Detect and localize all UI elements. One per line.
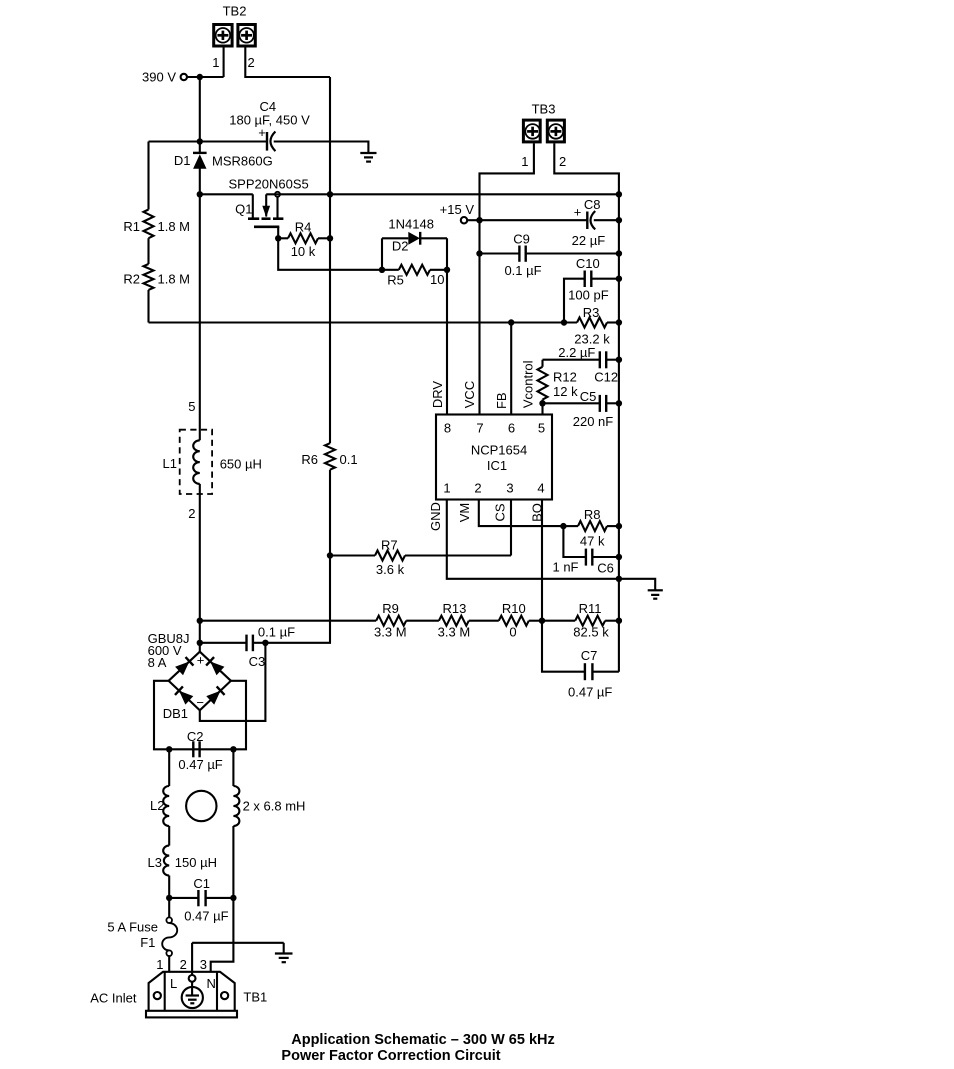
node C10 right on ground rail	[616, 276, 622, 282]
node R9 line left	[197, 618, 203, 624]
bridge diode lower-right	[206, 686, 224, 704]
svg-text:TB3: TB3	[532, 102, 556, 117]
svg-text:+: +	[197, 653, 205, 668]
svg-text:C6: C6	[597, 561, 614, 576]
resistor R10	[469, 601, 542, 640]
svg-text:82.5 k: 82.5 k	[573, 625, 609, 640]
node R12/C5	[539, 400, 545, 406]
resistor R8	[563, 507, 619, 549]
svg-text:22 µF: 22 µF	[572, 233, 606, 248]
svg-text:0.1 µF: 0.1 µF	[258, 625, 295, 640]
svg-text:R8: R8	[584, 507, 601, 522]
svg-text:1: 1	[156, 957, 163, 972]
wire L2 right down	[232, 826, 234, 898]
svg-text:C2: C2	[187, 729, 204, 744]
ground at TB1 pin 2	[275, 954, 293, 963]
node source rail at ground rail	[327, 191, 333, 197]
svg-text:0: 0	[509, 625, 516, 640]
svg-text:12 k: 12 k	[553, 384, 578, 399]
svg-text:4: 4	[537, 481, 544, 496]
wire CS pin stub	[510, 500, 512, 556]
bridge diode upper-right	[206, 657, 224, 675]
svg-text:7: 7	[476, 421, 483, 436]
svg-text:L: L	[170, 976, 177, 991]
wire VCC stub	[478, 220, 480, 414]
wire bridge AC loop	[154, 681, 246, 750]
node R5/D2 left	[379, 267, 385, 273]
wire VM pin to R8	[479, 500, 564, 527]
capacitor C3	[200, 625, 295, 670]
svg-text:D1: D1	[174, 153, 191, 168]
svg-text:−: −	[196, 695, 204, 710]
svg-text:R2: R2	[123, 272, 140, 287]
svg-text:L2: L2	[150, 798, 164, 813]
wire ground rail upper (TB2 pin 2 down)	[329, 77, 331, 194]
node R7 left on ground rail	[327, 552, 333, 558]
wire 390V node down to C4 bus	[199, 77, 201, 142]
svg-text:C3: C3	[249, 654, 266, 669]
bridge diode upper-left	[175, 657, 193, 675]
rectifier bridge DB1 GBU8J	[148, 631, 231, 721]
svg-text:C8: C8	[584, 197, 601, 212]
node R4 right on ground rail	[327, 235, 333, 241]
svg-text:N: N	[207, 976, 216, 991]
svg-text:D2: D2	[392, 239, 409, 254]
diode D1 MSR860G	[174, 142, 273, 195]
svg-text:3: 3	[506, 481, 513, 496]
svg-text:C7: C7	[581, 648, 598, 663]
node C12 right on ground rail	[616, 357, 622, 363]
capacitor C5	[543, 389, 619, 429]
svg-text:Application Schematic – 300 W: Application Schematic – 300 W 65 kHz	[291, 1032, 555, 1048]
resistor R1	[123, 142, 190, 239]
wire ground rail mid section	[329, 194, 331, 443]
node C1 right	[230, 895, 236, 901]
svg-text:R5: R5	[387, 273, 404, 288]
svg-text:C10: C10	[576, 256, 600, 271]
resistor R4	[278, 220, 330, 260]
capacitor C1	[169, 876, 233, 924]
svg-text:8: 8	[444, 421, 451, 436]
resistor R13	[406, 601, 470, 640]
wire Q1 gate lead	[277, 227, 279, 239]
svg-text:5: 5	[188, 399, 195, 414]
wire GND pin to earth	[447, 500, 655, 591]
svg-text:3: 3	[200, 957, 207, 972]
svg-text:1: 1	[443, 481, 450, 496]
svg-text:10: 10	[430, 272, 444, 287]
capacitor C7	[542, 621, 619, 700]
svg-text:650 µH: 650 µH	[220, 457, 262, 472]
node R11 right on ground rail	[616, 618, 622, 624]
svg-text:0.47 µF: 0.47 µF	[178, 757, 222, 772]
svg-text:MSR860G: MSR860G	[212, 154, 273, 169]
svg-text:Power Factor Correction Circui: Power Factor Correction Circuit	[281, 1048, 500, 1064]
ground at IC GND	[648, 590, 663, 598]
svg-text:C5: C5	[580, 389, 597, 404]
node source rail at TB3 return	[616, 191, 622, 197]
diode D2 1N4148	[382, 217, 447, 254]
svg-text:IC1: IC1	[487, 458, 507, 473]
svg-text:2: 2	[180, 957, 187, 972]
svg-text:R4: R4	[295, 220, 312, 235]
resistor R3	[574, 305, 619, 347]
node C10/R3 left	[561, 319, 567, 325]
TB2 pin 2 wire	[245, 48, 330, 78]
svg-text:0.47 µF: 0.47 µF	[568, 685, 612, 700]
node gate / R4	[275, 235, 281, 241]
node +15 V	[440, 202, 483, 223]
node C3 line left	[197, 640, 203, 646]
node switch rail left	[197, 191, 203, 197]
svg-text:DRV: DRV	[430, 381, 445, 409]
TB3 pin 2 wire	[554, 143, 619, 194]
svg-text:FB: FB	[494, 392, 509, 409]
svg-text:R7: R7	[381, 538, 398, 553]
inductor L2 (common-mode choke)	[150, 749, 305, 826]
resistor R2	[123, 238, 190, 322]
node C1 left	[166, 895, 172, 901]
wire TB1 pin 2 to earth	[180, 943, 284, 982]
resistor R7	[330, 538, 511, 578]
svg-text:1.8 M: 1.8 M	[158, 219, 191, 234]
svg-text:10 k: 10 k	[291, 244, 316, 259]
resistor R11	[542, 601, 619, 640]
svg-text:L1: L1	[163, 456, 177, 471]
svg-text:0.1: 0.1	[340, 452, 358, 467]
svg-text:R1: R1	[123, 219, 140, 234]
wire L3 down to C1 line	[168, 876, 170, 898]
wire main rail L1 to bridge	[199, 484, 201, 652]
svg-text:2.2 µF: 2.2 µF	[558, 345, 595, 360]
node BO / R10 right	[539, 618, 545, 624]
capacitor C8	[480, 197, 619, 248]
svg-text:SPP20N60S5: SPP20N60S5	[229, 177, 309, 192]
wire main switch-node rail (upper)	[199, 194, 201, 440]
svg-text:2: 2	[248, 55, 255, 70]
svg-text:L3: L3	[148, 855, 162, 870]
capacitor C12	[543, 345, 619, 385]
svg-text:6: 6	[508, 421, 515, 436]
svg-text:220 nF: 220 nF	[573, 414, 614, 429]
svg-text:2: 2	[188, 506, 195, 521]
resistor R9	[200, 601, 407, 640]
node C6 right on ground rail	[616, 554, 622, 560]
node C2 right	[230, 746, 236, 752]
svg-text:R12: R12	[553, 370, 577, 385]
node C8 right on ground rail	[616, 217, 622, 223]
wire Q1 source rail	[266, 193, 619, 195]
wire fuse to TB1 pin 1	[168, 956, 170, 972]
node 390 V	[142, 70, 224, 85]
svg-text:AC Inlet: AC Inlet	[90, 991, 137, 1006]
fuse F1	[107, 898, 177, 956]
svg-text:390 V: 390 V	[142, 70, 176, 85]
wire BO pin stub	[541, 500, 543, 621]
wire L2 left to L3	[168, 826, 170, 846]
svg-text:1N4148: 1N4148	[388, 217, 434, 232]
svg-text:R13: R13	[442, 601, 466, 616]
node FB stub	[508, 319, 514, 325]
capacitor C4	[229, 99, 310, 151]
capacitor C2	[178, 729, 222, 772]
TB3 pin 1 wire	[480, 143, 534, 220]
node junction 390V bus	[197, 138, 203, 144]
svg-text:1 nF: 1 nF	[552, 560, 578, 575]
wire ground rail right side	[618, 194, 620, 671]
svg-text:5: 5	[538, 421, 545, 436]
svg-text:C1: C1	[193, 876, 210, 891]
wire C4 to ground	[274, 142, 369, 154]
svg-text:8 A: 8 A	[148, 655, 167, 670]
svg-text:TB1: TB1	[243, 990, 267, 1005]
svg-text:DB1: DB1	[163, 706, 188, 721]
wire FB line	[149, 321, 578, 323]
svg-text:TB2: TB2	[223, 4, 247, 19]
svg-text:5 A Fuse: 5 A Fuse	[107, 920, 158, 935]
TB2 pin 1 wire	[212, 48, 223, 78]
node R3 right on ground rail	[616, 319, 622, 325]
node C3 right / bridge minus	[262, 640, 268, 646]
resistor R12	[538, 360, 579, 415]
connector TB1	[146, 972, 237, 1018]
svg-text:Q1: Q1	[235, 202, 252, 217]
svg-text:3.3 M: 3.3 M	[374, 625, 407, 640]
capacitor C6	[552, 526, 618, 575]
node C9 left on VCC	[476, 250, 482, 256]
svg-text:100 pF: 100 pF	[568, 288, 609, 303]
svg-text:180 µF, 450 V: 180 µF, 450 V	[229, 113, 310, 128]
svg-text:+: +	[574, 205, 582, 220]
svg-text:3.6 k: 3.6 k	[376, 562, 405, 577]
wire ground rail lower section	[265, 470, 330, 643]
svg-text:2: 2	[474, 481, 481, 496]
node C9 right on ground rail	[616, 250, 622, 256]
svg-text:GND: GND	[428, 502, 443, 531]
wire FB pin stub	[510, 323, 512, 415]
terminal block TB3	[523, 102, 564, 142]
wire D2 branch left vertical	[381, 238, 383, 269]
node C5 right on ground rail	[616, 400, 622, 406]
svg-text:0.1 µF: 0.1 µF	[504, 263, 541, 278]
svg-text:+: +	[258, 125, 266, 140]
ground at C4	[360, 153, 376, 162]
svg-text:R3: R3	[583, 305, 600, 320]
svg-text:2: 2	[559, 154, 566, 169]
svg-text:1: 1	[521, 154, 528, 169]
svg-text:1.8 M: 1.8 M	[158, 272, 191, 287]
node R5/D2 right	[444, 267, 450, 273]
op-amp controller IC1 NCP1654	[436, 415, 552, 500]
earth terminal symbol in TB1	[182, 982, 203, 1008]
node R8 right on ground rail	[616, 523, 622, 529]
svg-text:C9: C9	[513, 232, 530, 247]
resistor R6	[301, 443, 357, 470]
svg-text:2 x 6.8 mH: 2 x 6.8 mH	[243, 799, 306, 814]
svg-text:0.47 µF: 0.47 µF	[184, 909, 228, 924]
svg-text:VCC: VCC	[462, 381, 477, 408]
svg-text:47 k: 47 k	[580, 534, 605, 549]
capacitor C9	[480, 232, 619, 279]
svg-text:+15 V: +15 V	[440, 202, 475, 217]
bridge diode lower-left	[175, 686, 193, 704]
resistor R5	[382, 265, 447, 288]
wire D2/R5 right to DRV pin	[446, 238, 448, 414]
svg-text:3.3 M: 3.3 M	[438, 625, 471, 640]
svg-text:R11: R11	[579, 601, 602, 616]
svg-text:R9: R9	[382, 601, 399, 616]
svg-text:R6: R6	[301, 452, 318, 467]
svg-text:1: 1	[212, 55, 219, 70]
wire gate to R5/D2 network	[278, 238, 382, 269]
transistor Q1 SPP20N60S5	[200, 177, 309, 227]
inductor L1	[163, 430, 262, 494]
wire TB1 pin 3	[200, 898, 234, 972]
capacitor C10	[564, 256, 619, 323]
node R8/C6 left	[560, 523, 566, 529]
inductor L3	[148, 846, 217, 876]
svg-text:NCP1654: NCP1654	[471, 443, 527, 458]
terminal block TB2	[214, 4, 256, 47]
svg-text:Vcontrol: Vcontrol	[520, 360, 535, 408]
node C2 left	[166, 746, 172, 752]
svg-text:150 µH: 150 µH	[175, 855, 217, 870]
svg-text:R10: R10	[502, 601, 526, 616]
svg-text:F1: F1	[140, 935, 155, 950]
wire 390V bus horizontal	[149, 140, 268, 142]
svg-text:VM: VM	[457, 503, 472, 523]
svg-text:CS: CS	[493, 503, 508, 521]
wire bridge minus to C3	[200, 643, 266, 721]
svg-text:C12: C12	[594, 370, 618, 385]
node ground rail at GND line	[616, 576, 622, 582]
